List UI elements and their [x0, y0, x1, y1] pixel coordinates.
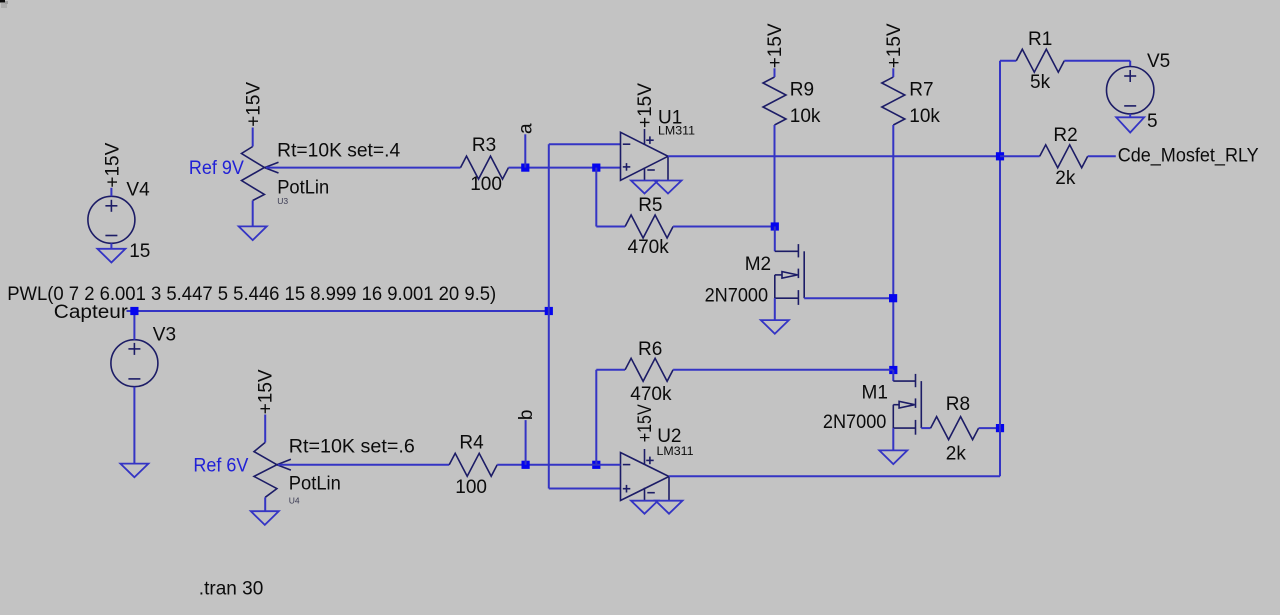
wire: R3 to node a to U1 non-inverting input: [509, 167, 621, 169]
svg-text:R1: R1: [1028, 29, 1052, 50]
wire: U4 bottom pin stub: [264, 497, 266, 511]
svg-text:2N7000: 2N7000: [823, 412, 887, 433]
svg-text:2N7000: 2N7000: [705, 285, 769, 306]
wire: M1 gate lead to R8: [921, 427, 930, 429]
resistor R1: [1016, 49, 1064, 72]
wire: R9 top stub: [774, 68, 776, 77]
wire: U3 bottom pin stub: [252, 201, 254, 227]
svg-text:V3: V3: [153, 325, 176, 346]
junction: R8 / output rail: [996, 424, 1004, 432]
svg-text:a: a: [516, 123, 537, 134]
junction: U1 +input / R5 tap: [592, 164, 600, 172]
comparator U2 LM311: [621, 449, 670, 501]
wire: R1 to V5: [1064, 60, 1130, 62]
node a: label stub wire: [524, 134, 526, 167]
svg-text:b: b: [516, 410, 537, 421]
wire: U1 output: [668, 155, 1000, 157]
wire: V4 bottom pin stub: [110, 243, 112, 249]
svg-text:2k: 2k: [946, 444, 967, 465]
svg-text:+15V: +15V: [635, 83, 656, 128]
wire: sense rail to U1 inverting input: [549, 143, 621, 145]
svg-text:R7: R7: [909, 80, 933, 101]
wire: output rail vertical x1000: [999, 61, 1001, 477]
voltage source V4: [88, 196, 135, 243]
svg-text:Ref 6V: Ref 6V: [193, 456, 248, 477]
junction: M2 drain node (R9/R5): [771, 222, 779, 230]
svg-text:100: 100: [470, 174, 502, 195]
svg-text:U4: U4: [289, 495, 300, 505]
junction: M2 gate / R7 rail: [889, 294, 897, 302]
svg-text:5k: 5k: [1030, 72, 1051, 93]
svg-text:100: 100: [455, 477, 487, 498]
wire: R4 to node b to U2 inverting input: [497, 464, 620, 466]
ground under V4: [97, 249, 125, 263]
node b: junction: [522, 461, 530, 469]
svg-text:M1: M1: [862, 383, 888, 404]
svg-text:+15V: +15V: [765, 23, 786, 68]
wire: R6 to M1 drain node: [673, 369, 893, 371]
voltage source V3: [111, 340, 158, 387]
screen artifact top-left corner: [0, 0, 5, 3]
node b: label stub wire: [525, 420, 527, 465]
svg-text:U3: U3: [277, 196, 288, 206]
junction: Capteur / sense rail: [545, 307, 553, 315]
resistor R7: [882, 77, 905, 125]
wire: U4 top pin stub: [264, 415, 266, 443]
svg-text:15: 15: [129, 241, 150, 262]
resistor R9: [763, 77, 786, 125]
wire: M2 gate to M1 drain node: [804, 297, 893, 299]
svg-text:Capteur: Capteur: [54, 302, 129, 323]
svg-text:M2: M2: [745, 254, 771, 275]
wire: Capteur node to x549 vertical: [134, 310, 548, 312]
wire: V3 bottom pin down: [133, 387, 135, 464]
svg-text:Rt=10K set=.4: Rt=10K set=.4: [277, 140, 400, 161]
wire: M1 source to ground: [892, 428, 894, 451]
wire: Capteur label stub: [127, 310, 135, 312]
wire: V3 top pin to Capteur node: [133, 311, 135, 340]
svg-text:R8: R8: [946, 394, 970, 415]
svg-text:Ref 9V: Ref 9V: [189, 158, 244, 179]
transistor M2 2N7000: [775, 244, 804, 305]
wire: sense rail vertical x549: [548, 144, 550, 488]
ground at U2 V- pin: [631, 501, 658, 514]
wire: R5 left lead: [596, 226, 625, 228]
svg-text:5: 5: [1147, 111, 1158, 132]
ground at U2 emitter pin: [656, 501, 683, 514]
wire: junction to M1 drain: [892, 370, 894, 381]
svg-text:10k: 10k: [790, 106, 821, 127]
wire: V4 top pin stub: [110, 188, 112, 197]
svg-text:10k: 10k: [909, 106, 940, 127]
resistor R4: [449, 453, 497, 476]
svg-text:LM311: LM311: [658, 123, 695, 137]
svg-text:+15V: +15V: [635, 404, 656, 442]
resistor R2: [1040, 145, 1088, 168]
svg-text:.tran 30: .tran 30: [199, 579, 263, 600]
wire: V5 top stub: [1129, 61, 1131, 67]
junction: U2 -input / R6 tap: [592, 461, 600, 469]
resistor R5: [625, 215, 673, 238]
wire: R6 left lead: [596, 369, 625, 371]
svg-text:V4: V4: [126, 180, 150, 201]
svg-text:LM311: LM311: [657, 444, 694, 458]
junction: M1 drain node (R6/R7): [889, 366, 897, 374]
resistor R8: [931, 417, 979, 440]
svg-text:+15V: +15V: [243, 82, 264, 127]
wire: M2 source to ground: [774, 298, 776, 320]
svg-text:Cde_Mosfet_RLY: Cde_Mosfet_RLY: [1118, 145, 1259, 166]
ground under V3: [120, 464, 148, 478]
junction: Capteur node: [130, 307, 138, 315]
wire: sense rail to U2 non-inverting input: [549, 488, 621, 490]
wire: V5 bottom stub: [1129, 114, 1131, 118]
wire: junction down to R5: [595, 168, 597, 227]
potentiometer U3 PotLin (Ref 9V): [242, 147, 279, 201]
wire: R2 left lead: [1000, 155, 1040, 157]
junction: U1 output / R2: [996, 152, 1004, 160]
wire: U4 wiper to R4: [278, 464, 449, 466]
svg-text:PotLin: PotLin: [289, 474, 341, 495]
svg-text:R6: R6: [638, 339, 662, 360]
wire: U3 wiper to R3: [266, 167, 461, 169]
wire: junction to M2 drain: [774, 227, 776, 252]
wire: R7 top stub: [892, 68, 894, 77]
voltage source V5: [1107, 67, 1154, 114]
svg-text:470k: 470k: [628, 237, 670, 258]
svg-text:470k: 470k: [630, 384, 672, 405]
comparator U1 LM311: [621, 129, 669, 181]
ground under U4: [251, 511, 279, 525]
ground under M1: [879, 450, 907, 464]
wire: R2 to net label: [1088, 155, 1116, 157]
ground under U3: [239, 226, 267, 240]
svg-text:R3: R3: [472, 135, 496, 156]
svg-text:R4: R4: [459, 433, 484, 454]
ground at U1 V- pin: [631, 181, 658, 194]
wire: R8 to output rail: [979, 427, 1000, 429]
transistor M1 2N7000: [893, 374, 921, 435]
ground at U1 emitter pin: [655, 181, 682, 194]
wire: U3 top pin stub: [252, 128, 254, 147]
wire: junction up to R6: [595, 370, 597, 465]
svg-text:+15V: +15V: [102, 142, 123, 187]
wire: R9 bottom to M2 drain node: [774, 125, 776, 227]
svg-text:+15V: +15V: [884, 23, 905, 68]
node a: junction: [521, 164, 529, 172]
resistor R6: [625, 358, 673, 381]
ground under V5: [1116, 117, 1144, 132]
wire: R5 to M2 drain node: [673, 226, 775, 228]
wire: R7 bottom to M1 drain node: [892, 125, 894, 370]
svg-text:R2: R2: [1053, 125, 1077, 146]
svg-text:R5: R5: [638, 195, 662, 216]
resistor R3: [461, 156, 509, 179]
svg-text:R9: R9: [790, 80, 814, 101]
ground under M2: [761, 320, 789, 334]
svg-text:2k: 2k: [1055, 168, 1076, 189]
svg-text:+15V: +15V: [255, 369, 276, 414]
svg-text:Rt=10K set=.6: Rt=10K set=.6: [289, 436, 415, 457]
wire: R1 left lead: [1000, 60, 1016, 62]
svg-text:V5: V5: [1147, 51, 1170, 72]
potentiometer U4 PotLin (Ref 6V): [254, 442, 291, 497]
wire: U2 output to rail: [669, 475, 1000, 477]
